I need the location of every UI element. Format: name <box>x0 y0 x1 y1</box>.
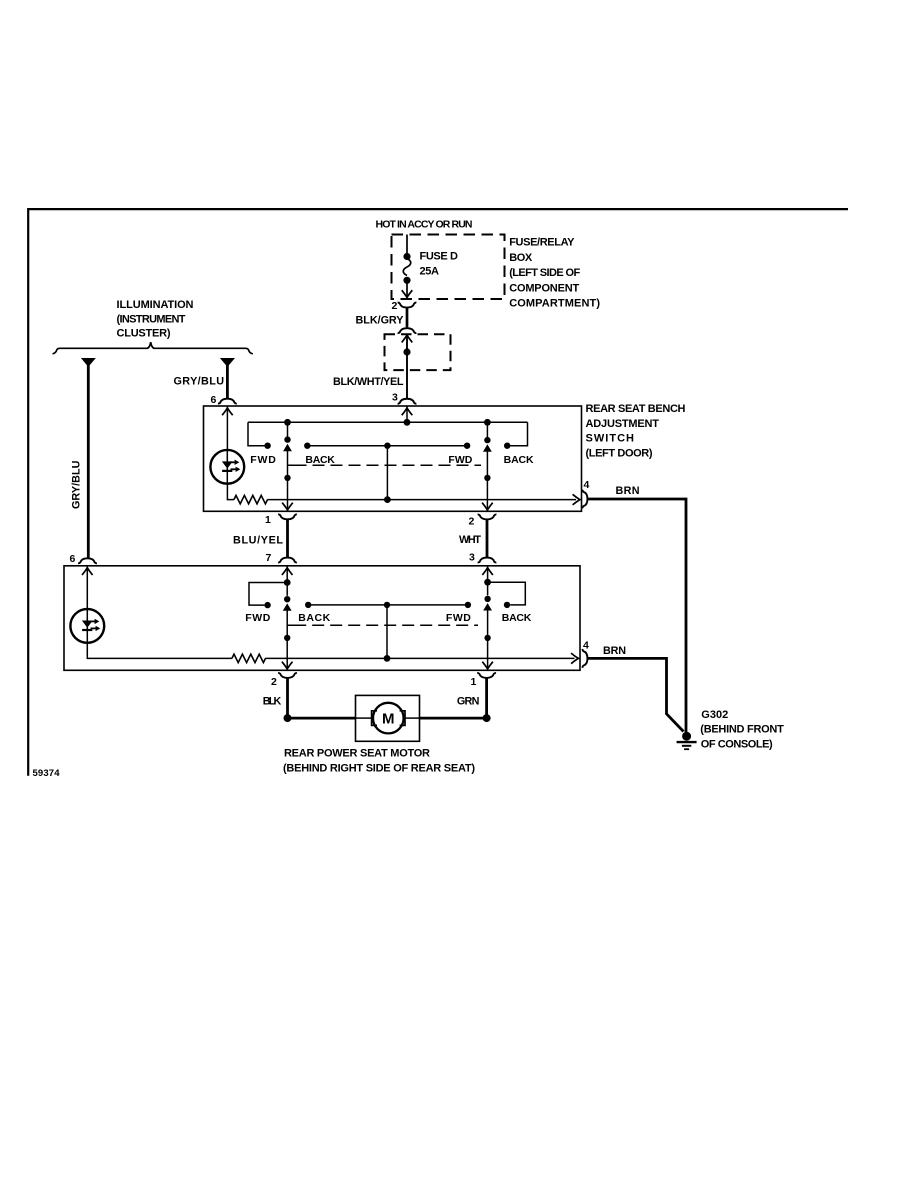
wire WHT <box>486 520 489 558</box>
svg-text:REAR POWER SEAT MOTOR: REAR POWER SEAT MOTOR <box>284 748 430 760</box>
svg-text:COMPARTMENT): COMPARTMENT) <box>509 298 600 310</box>
connector pin 1 (motor side) <box>477 673 496 678</box>
wire GRY/BLU (right drop) <box>226 364 229 398</box>
svg-text:4: 4 <box>584 479 590 491</box>
svg-text:BRN: BRN <box>616 485 640 497</box>
svg-text:OF CONSOLE): OF CONSOLE) <box>701 739 773 751</box>
link wire BACK1-FWD2 (lower box) <box>308 602 468 608</box>
wire BLU/YEL <box>286 519 289 557</box>
svg-text:GRY/BLU: GRY/BLU <box>174 376 225 388</box>
wire LED to resistor corner (lower box) <box>87 643 232 659</box>
label REAR POWER SEAT MOTOR (BEHIND RIGHT SIDE OF REAR SEAT) <box>283 748 475 775</box>
svg-text:BRN: BRN <box>603 645 626 657</box>
svg-text:ILLUMINATION: ILLUMINATION <box>117 299 194 311</box>
contact BACK 1 (upper box) <box>304 443 310 449</box>
wire resistor to pin 4 (lower box bottom rail) <box>265 653 578 664</box>
connector pin 4 (upper box) <box>583 490 588 509</box>
svg-text:BACK: BACK <box>502 612 532 624</box>
wire through junction box <box>402 335 413 399</box>
wire pin6 to LED (lower box) <box>82 566 93 609</box>
wire BLK <box>286 678 289 716</box>
svg-text:GRN: GRN <box>457 696 480 708</box>
svg-text:(LEFT SIDE OF: (LEFT SIDE OF <box>509 267 580 279</box>
connector pin 2 <box>398 303 417 308</box>
svg-text:BLK/WHT/YEL: BLK/WHT/YEL <box>333 376 404 388</box>
svg-text:(BEHIND FRONT: (BEHIND FRONT <box>700 724 784 736</box>
contact FWD 1 (lower box) <box>264 602 270 608</box>
connector pin 6 lower switch <box>78 558 97 563</box>
svg-text:BACK: BACK <box>504 454 534 466</box>
mechanical link dashed (upper box) <box>288 464 482 466</box>
LED U1 (upper illumination lamp) <box>210 450 244 484</box>
rear seat bench adjustment switch box (lower) <box>64 566 580 671</box>
svg-text:BLK: BLK <box>263 696 282 708</box>
link wire BACK1-FWD2 (upper box) <box>307 443 467 449</box>
wire BLK/GRY <box>406 308 409 328</box>
svg-text:4: 4 <box>583 640 589 652</box>
switch pole 2 (upper box) <box>482 419 493 510</box>
svg-text:GRY/BLU: GRY/BLU <box>71 460 83 509</box>
resistor R2 <box>232 654 266 662</box>
svg-text:CLUSTER): CLUSTER) <box>117 327 171 339</box>
label FUSE D 25A <box>420 251 459 278</box>
wire LED to resistor corner (upper box) <box>227 484 234 500</box>
svg-text:6: 6 <box>70 553 76 565</box>
connector pin 2 (upper box bottom) <box>478 515 497 520</box>
connector pin 1 <box>278 514 297 519</box>
svg-text:REAR SEAT BENCH: REAR SEAT BENCH <box>586 403 686 415</box>
svg-text:(INSTRUMENT: (INSTRUMENT <box>117 314 186 326</box>
svg-text:BOX: BOX <box>509 252 533 264</box>
wire center tap down (lower box) <box>384 605 391 662</box>
contact FWD 2 (upper box) <box>464 443 470 449</box>
svg-text:BACK: BACK <box>305 454 335 466</box>
svg-text:2: 2 <box>392 300 398 312</box>
connector pin 2 (motor side) <box>278 673 297 678</box>
svg-text:COMPONENT: COMPONENT <box>509 282 579 294</box>
rear seat bench adjustment switch box (upper) <box>204 406 582 511</box>
connector pin 3 (lower box) <box>478 558 497 563</box>
connector pin 7 <box>278 558 297 563</box>
svg-text:2: 2 <box>469 515 475 527</box>
svg-text:3: 3 <box>469 552 475 564</box>
svg-text:BLK/GRY: BLK/GRY <box>356 315 405 327</box>
svg-text:BACK: BACK <box>298 612 330 624</box>
border frame <box>28 209 848 776</box>
bracket to BACK contact right (upper box) <box>510 422 527 445</box>
wire GRN <box>485 678 488 716</box>
switch pole 1 (upper box) <box>282 419 293 510</box>
svg-text:3: 3 <box>392 392 398 404</box>
ground G302 <box>677 732 697 750</box>
svg-text:FWD: FWD <box>250 454 276 466</box>
contact FWD 2 (lower box) <box>465 602 471 608</box>
bracket to FWD contact (lower box) <box>249 583 287 606</box>
wire BRN (upper) <box>588 499 687 733</box>
motor M1 rear power seat motor <box>356 695 420 741</box>
resistor R1 <box>234 495 268 503</box>
contact BACK 1 (lower box) <box>305 602 311 608</box>
svg-text:1: 1 <box>265 514 271 526</box>
bracket to BACK contact (lower box) <box>488 582 526 605</box>
label G302 (BEHIND FRONT OF CONSOLE) <box>700 709 784 750</box>
brace <box>53 342 253 354</box>
svg-text:FUSE/RELAY: FUSE/RELAY <box>509 237 575 249</box>
fuse F D 25A <box>402 253 413 298</box>
svg-text:FWD: FWD <box>446 612 471 624</box>
svg-text:59374: 59374 <box>33 768 61 779</box>
connector pin 3 <box>398 399 417 404</box>
top feed rail (upper box) <box>248 421 528 423</box>
svg-text:FUSE D: FUSE D <box>420 251 459 263</box>
contact FWD 1 (upper box) <box>264 443 270 449</box>
illumination feed triangle left <box>81 358 96 367</box>
mechanical link dashed (lower box) <box>287 624 478 626</box>
svg-text:WHT: WHT <box>459 534 481 546</box>
switch pole 2 (lower box) <box>482 566 493 669</box>
node motor right <box>483 714 491 722</box>
svg-text:6: 6 <box>211 394 217 406</box>
wire motor right <box>420 717 487 720</box>
svg-text:BLU/YEL: BLU/YEL <box>233 534 283 546</box>
svg-text:ADJUSTMENT: ADJUSTMENT <box>586 418 660 430</box>
connector pin 4 (lower box) <box>583 649 588 668</box>
svg-text:FWD: FWD <box>448 454 472 466</box>
svg-text:FWD: FWD <box>245 612 270 624</box>
illumination feed triangle right <box>220 358 235 367</box>
svg-text:(BEHIND RIGHT SIDE OF REAR SEA: (BEHIND RIGHT SIDE OF REAR SEAT) <box>283 763 475 775</box>
wire resistor to pin 4 (upper box bottom rail) <box>267 494 580 505</box>
wire pin6 to LED (upper box) <box>222 406 233 450</box>
switch pole 1 (lower box) <box>282 566 293 669</box>
svg-text:G302: G302 <box>701 709 728 721</box>
wire fuse feed <box>406 235 408 255</box>
wire motor left <box>288 717 356 720</box>
fuse/relay box (dashed) <box>392 235 505 300</box>
svg-text:HOT IN ACCY OR RUN: HOT IN ACCY OR RUN <box>376 219 473 231</box>
wire GRY/BLU (left drop) <box>87 364 90 558</box>
label ILLUMINATION (INSTRUMENT CLUSTER) <box>117 299 194 339</box>
wire center tap down (upper box) <box>384 446 391 503</box>
junction connector box (dashed) <box>385 334 451 370</box>
wire BRN (lower) <box>588 658 684 731</box>
svg-text:M: M <box>382 711 395 728</box>
node motor left <box>284 714 292 722</box>
connector (top of junction box) <box>398 328 417 333</box>
contact BACK 2 (upper box) <box>504 443 510 449</box>
LED U2 (lower illumination lamp) <box>70 609 104 643</box>
svg-text:SWITCH: SWITCH <box>586 433 635 445</box>
connector pin 6 upper switch <box>218 399 237 404</box>
svg-text:1: 1 <box>471 676 477 688</box>
bracket to FWD contact left (upper box) <box>248 422 265 445</box>
wire pin 3 into top rail <box>402 406 413 426</box>
label FUSE/RELAY BOX (LEFT SIDE OF COMPONENT COMPARTMENT) <box>509 237 600 310</box>
svg-text:(LEFT DOOR): (LEFT DOOR) <box>586 447 653 459</box>
svg-text:2: 2 <box>271 676 277 688</box>
label REAR SEAT BENCH ADJUSTMENT SWITCH (LEFT DOOR) <box>586 403 686 459</box>
svg-text:7: 7 <box>266 552 272 564</box>
svg-text:25A: 25A <box>420 266 440 278</box>
contact BACK 2 (lower box) <box>504 602 510 608</box>
